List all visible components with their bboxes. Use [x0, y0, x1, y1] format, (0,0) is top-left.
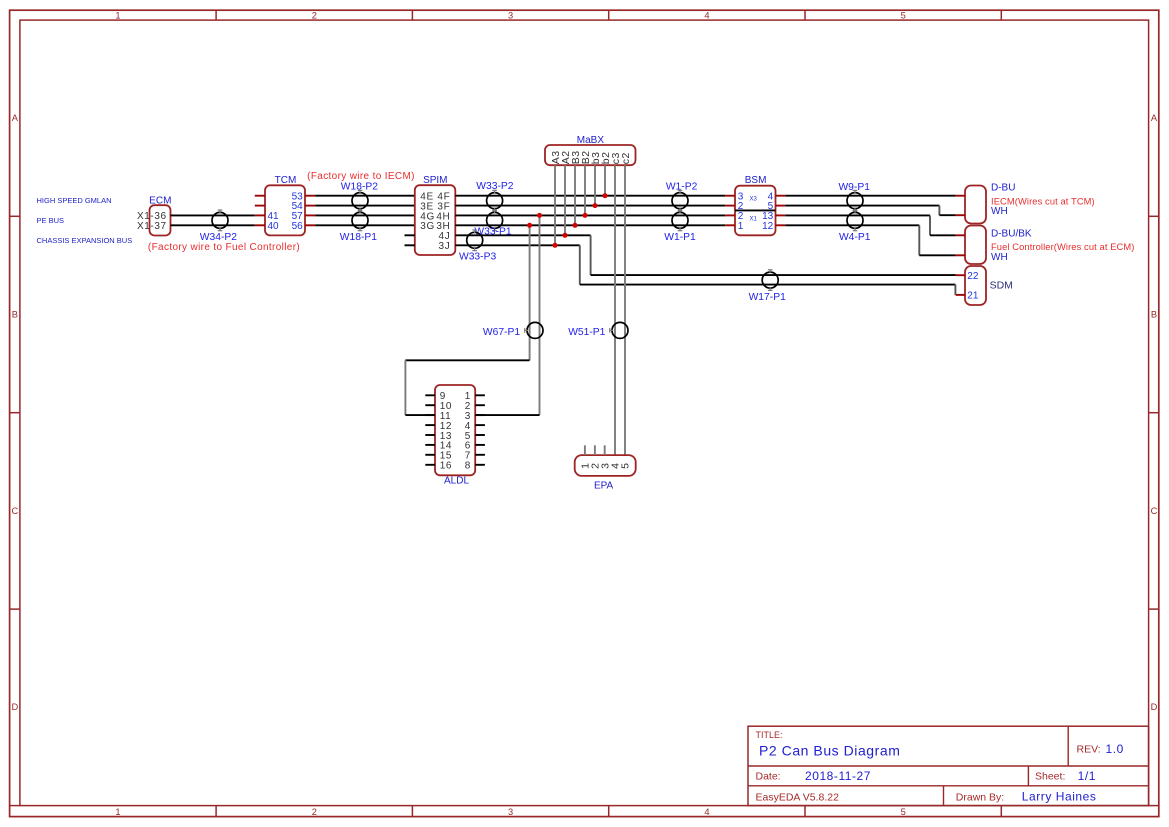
wire SPIM3H-BSM1	[455, 224, 725, 226]
svg-text:CHASSIS EXPANSION BUS: CHASSIS EXPANSION BUS	[37, 236, 133, 245]
SDM pin 21	[956, 291, 979, 302]
net label HIGH SPEED GMLAN	[37, 196, 112, 205]
svg-text:SDM: SDM	[990, 280, 1013, 292]
connector W17-P1	[749, 269, 786, 303]
BSM pin 4	[768, 191, 786, 202]
svg-text:W18-P2: W18-P2	[341, 181, 378, 192]
junction b3-row2	[593, 203, 598, 208]
TCM pin 57	[292, 211, 316, 222]
connector BSM	[735, 175, 776, 235]
ALDL pin stubs	[425, 395, 485, 465]
SDM pin 22	[956, 271, 979, 282]
wire MaBX pin c3 vertical	[614, 165, 616, 455]
label SDM	[990, 280, 1013, 292]
wire MaBX pin A3 vertical	[554, 165, 556, 245]
svg-text:SPIM: SPIM	[423, 175, 447, 186]
svg-text:Larry Haines: Larry Haines	[1022, 790, 1097, 804]
wire ECM X1-37 to TCM 40	[171, 224, 255, 226]
connector W9-P1	[838, 182, 870, 212]
junction row3 x540	[537, 213, 542, 218]
connector SDM	[965, 266, 986, 305]
svg-text:W33-P2: W33-P2	[476, 181, 513, 192]
TCM pin 54	[292, 201, 316, 212]
svg-text:EPA: EPA	[594, 481, 614, 492]
svg-text:X1-37: X1-37	[137, 221, 167, 232]
svg-text:3G: 3G	[420, 221, 435, 232]
label WH lower	[991, 252, 1008, 263]
wire row6 lower	[580, 284, 956, 286]
svg-text:REV:: REV:	[1077, 744, 1101, 756]
svg-text:W51-P1: W51-P1	[568, 327, 605, 338]
TCM pin 40	[255, 221, 279, 232]
connector TCM	[265, 175, 305, 235]
wire MaBX pin B3 vertical	[574, 165, 576, 225]
junction B3-row4	[573, 223, 578, 228]
svg-text:5: 5	[901, 10, 906, 20]
svg-text:2018-11-27: 2018-11-27	[805, 769, 871, 783]
note Fuel Controller wires cut	[991, 242, 1134, 252]
svg-text:W18-P1: W18-P1	[340, 232, 377, 243]
svg-text:8: 8	[465, 461, 471, 472]
pin X1-36 label	[137, 211, 167, 222]
svg-text:21: 21	[967, 291, 979, 302]
wire MaBX pin c2 vertical	[624, 165, 626, 455]
svg-text:A: A	[1151, 113, 1158, 123]
BSM pin 5	[768, 201, 786, 212]
BSM pin 2 lower	[725, 211, 744, 222]
wire TCM53-SPIM4E	[315, 195, 415, 197]
svg-text:C: C	[12, 506, 19, 516]
svg-text:C: C	[1151, 506, 1158, 516]
connector W1-P1	[664, 210, 696, 243]
connector W33-P3	[459, 230, 496, 263]
wire jog r3	[930, 215, 956, 235]
junction b2-row1	[603, 193, 608, 198]
svg-text:ECM: ECM	[149, 195, 171, 206]
svg-text:B: B	[1151, 309, 1157, 319]
junction A2-row5	[563, 233, 568, 238]
wire BSM4 right	[785, 195, 955, 197]
connector MaBX	[545, 135, 636, 165]
wire into ALDL pin11	[405, 414, 435, 416]
connector ECM	[149, 195, 171, 235]
junction row4 x530	[527, 223, 532, 228]
svg-text:2: 2	[312, 10, 317, 20]
svg-text:W17-P1: W17-P1	[749, 292, 786, 303]
wire MaBX pin b2 vertical	[604, 165, 606, 196]
svg-text:W4-P1: W4-P1	[839, 232, 871, 243]
label D-BU	[991, 183, 1015, 194]
svg-text:(Factory wire to Fuel Controll: (Factory wire to Fuel Controller)	[148, 242, 300, 253]
svg-text:1: 1	[115, 807, 120, 817]
label D-BU/BK	[991, 229, 1032, 240]
connector W51-P1	[568, 322, 628, 338]
svg-text:12: 12	[762, 221, 774, 232]
svg-text:D-BU/BK: D-BU/BK	[991, 229, 1032, 240]
wire jog to SDM21	[954, 285, 956, 295]
svg-text:22: 22	[967, 271, 979, 282]
SPIM cut pin row5	[405, 234, 415, 236]
SPIM cut pin row6	[405, 244, 415, 246]
wire row5 to SDM22	[591, 274, 956, 276]
junction A3-row6	[553, 243, 558, 248]
svg-text:Fuel Controller(Wires cut at E: Fuel Controller(Wires cut at ECM)	[991, 242, 1134, 252]
svg-text:D: D	[1151, 702, 1158, 712]
wire TCM57-SPIM4G	[315, 214, 415, 216]
connector EPA	[575, 455, 636, 491]
svg-text:D: D	[12, 702, 19, 712]
connector W34-P2	[200, 210, 237, 243]
note Factory wire to IECM	[307, 171, 415, 182]
svg-text:X1: X1	[750, 216, 758, 222]
svg-text:W33-P1: W33-P1	[474, 226, 511, 237]
wire jog row6 down	[579, 245, 581, 284]
wire jog row5 down	[590, 235, 592, 275]
svg-text:W1-P1: W1-P1	[664, 232, 696, 243]
BSM label X1	[750, 216, 758, 222]
svg-text:2: 2	[312, 807, 317, 817]
wire TCM54-SPIM3E	[315, 205, 415, 207]
svg-text:W9-P1: W9-P1	[838, 182, 870, 193]
wire jog r4	[919, 225, 955, 255]
connector SPIM	[415, 175, 456, 255]
svg-text:Date:: Date:	[756, 771, 781, 783]
svg-text:X3: X3	[750, 196, 758, 202]
junction B2-row3	[583, 213, 588, 218]
pin X1-37 label	[137, 221, 167, 232]
svg-text:56: 56	[292, 221, 304, 232]
net label CHASSIS EXPANSION BUS	[37, 236, 133, 245]
svg-text:IECM(Wires cut at TCM): IECM(Wires cut at TCM)	[991, 197, 1095, 207]
wire MaBX pin A2 vertical	[564, 165, 566, 235]
svg-text:4: 4	[704, 807, 709, 817]
TCM pin 56	[292, 221, 316, 232]
svg-text:HIGH SPEED GMLAN: HIGH SPEED GMLAN	[37, 196, 112, 205]
D-BU pin upper	[956, 195, 965, 197]
wire MaBX pin B2 vertical	[584, 165, 586, 215]
svg-text:PE BUS: PE BUS	[37, 216, 65, 225]
svg-text:D-BU: D-BU	[991, 183, 1015, 194]
BSM label X3	[750, 196, 758, 202]
connector W1-P2	[666, 181, 698, 211]
wire jog r2	[939, 206, 955, 216]
wire SPIM4J row5	[455, 234, 590, 236]
BSM pin 2 upper	[725, 201, 744, 212]
label WH upper	[991, 206, 1008, 217]
wire TCM56-SPIM3G	[315, 224, 415, 226]
svg-text:40: 40	[268, 221, 280, 232]
svg-text:WH: WH	[991, 252, 1008, 263]
svg-text:c2: c2	[620, 152, 632, 164]
wire SPIM4F-BSM3	[455, 195, 725, 197]
BSM pin 12	[762, 221, 785, 232]
svg-text:1.0: 1.0	[1106, 742, 1124, 756]
TCM pin 41	[255, 211, 279, 222]
wire BSM13 right	[785, 214, 930, 216]
net label PE BUS	[37, 216, 65, 225]
MaBX pin names	[550, 150, 632, 164]
svg-text:MaBX: MaBX	[577, 135, 605, 146]
wire BSM12 right	[785, 224, 919, 226]
wire into ALDL pin3	[475, 414, 539, 416]
connector D-BU IECM	[965, 186, 986, 224]
wire SPIM3F-BSM2	[455, 205, 725, 207]
wire SPIM3J row6	[455, 244, 580, 246]
svg-text:3: 3	[508, 10, 513, 20]
TCM pin 53	[292, 191, 316, 202]
note IECM wires cut	[991, 197, 1095, 207]
svg-text:1/1: 1/1	[1078, 769, 1096, 783]
connector W33-P1	[474, 210, 511, 238]
note Factory wire to Fuel Controller	[148, 242, 300, 253]
svg-text:TCM: TCM	[275, 175, 297, 186]
svg-text:Sheet:: Sheet:	[1035, 771, 1065, 783]
svg-text:W33-P3: W33-P3	[459, 251, 496, 262]
wire ALDL11 horiz upper	[405, 359, 529, 361]
svg-text:5: 5	[620, 462, 632, 468]
connector W18-P2	[341, 181, 378, 211]
connector D-BU/BK Fuel	[965, 226, 986, 265]
TCM cut pin row2	[255, 205, 265, 207]
BSM pin 1	[725, 221, 744, 232]
connector ALDL	[435, 385, 475, 487]
svg-text:ALDL: ALDL	[444, 476, 469, 487]
connector W33-P2	[476, 181, 513, 211]
svg-text:3J: 3J	[439, 241, 451, 252]
connector W67-P1	[483, 322, 543, 338]
svg-text:W1-P2: W1-P2	[666, 181, 698, 192]
svg-text:1: 1	[115, 10, 120, 20]
svg-text:WH: WH	[991, 206, 1008, 217]
wire MaBX pin b3 vertical	[594, 165, 596, 205]
svg-text:1: 1	[738, 221, 744, 232]
EPA pin numbers	[580, 462, 632, 468]
svg-text:EasyEDA V5.8.22: EasyEDA V5.8.22	[756, 791, 840, 803]
connector W18-P1	[340, 210, 377, 243]
TCM cut pin row1	[255, 195, 265, 197]
Fuel pin lower	[956, 254, 965, 256]
svg-text:Drawn By:: Drawn By:	[956, 791, 1004, 803]
ALDL pin numbers	[440, 391, 471, 472]
BSM pin 3	[725, 191, 744, 202]
svg-text:16: 16	[440, 461, 452, 472]
svg-text:BSM: BSM	[745, 175, 767, 186]
svg-text:4: 4	[704, 10, 709, 20]
svg-text:A: A	[12, 113, 19, 123]
wire BSM5 right	[785, 205, 939, 207]
wire ALDL11 vertical	[404, 360, 406, 415]
wire vertical to ALDL pin11	[529, 225, 531, 360]
connector W4-P1	[839, 210, 871, 244]
svg-text:5: 5	[901, 807, 906, 817]
SPIM pin names	[420, 192, 450, 253]
svg-text:TITLE:: TITLE:	[756, 730, 783, 740]
EPA unconnected pin stubs	[585, 445, 605, 455]
BSM pin 13	[762, 211, 785, 222]
wire vertical to ALDL pin3	[539, 215, 541, 415]
wire ECM X1-36 to TCM 41	[171, 214, 255, 216]
svg-text:W67-P1: W67-P1	[483, 327, 520, 338]
svg-text:B: B	[12, 309, 18, 319]
svg-text:3: 3	[508, 807, 513, 817]
wire SPIM4H-BSM2	[455, 214, 725, 216]
svg-text:P2 Can Bus Diagram: P2 Can Bus Diagram	[759, 742, 900, 758]
title block	[748, 726, 1149, 805]
Fuel pin upper	[956, 234, 965, 236]
D-BU pin lower	[956, 214, 965, 216]
